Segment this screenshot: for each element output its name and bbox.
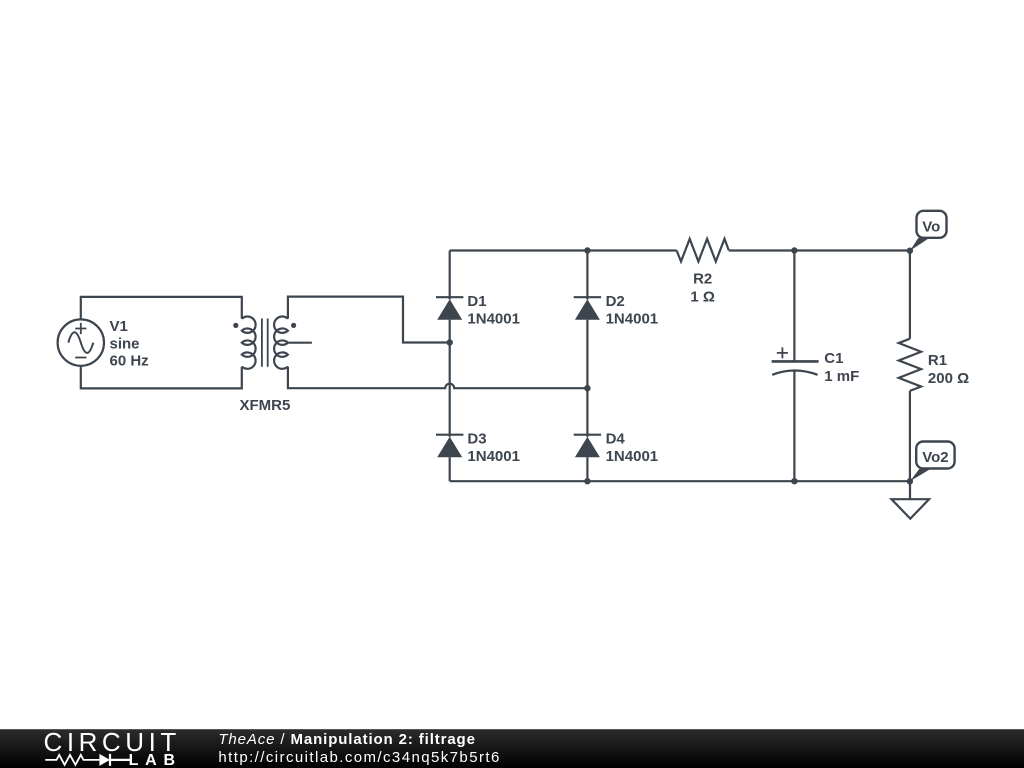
transformer primary dot — [233, 323, 238, 328]
flag Vo2 pointer — [910, 469, 931, 482]
svg-text:http://circuitlab.com/c34nq5k7: http://circuitlab.com/c34nq5k7b5rt6 — [218, 749, 500, 766]
junction dot top rail at C1 — [791, 247, 797, 253]
logo resistor glyph — [45, 755, 99, 765]
ground — [892, 499, 930, 519]
wire R1 top lead — [909, 251, 911, 339]
junction dot bottom rail at C1 — [791, 478, 797, 484]
node B junction dot — [584, 385, 590, 391]
wire bridge right vertical middle — [586, 320, 588, 437]
wire top rail left segment — [450, 249, 677, 251]
capacitor C1 — [772, 347, 819, 374]
junction dot top rail at bridge right — [584, 247, 590, 253]
transformer secondary dot — [291, 323, 296, 328]
wire secondary bottom to bridge node B with hop — [288, 367, 588, 389]
svg-text:XFMR5: XFMR5 — [239, 397, 290, 414]
svg-text:TheAce / Manipulation 2: filtr: TheAce / Manipulation 2: filtrage — [218, 731, 475, 748]
flag Vo pointer — [910, 238, 930, 251]
wire top rail right segment — [729, 249, 910, 251]
svg-text:D11N4001: D11N4001 — [467, 293, 520, 328]
wire bottom rail — [450, 480, 910, 482]
svg-text:Vo2: Vo2 — [922, 449, 948, 466]
wire bridge left vertical lower — [449, 457, 451, 481]
wire bridge right vertical upper — [586, 251, 588, 300]
wire ground lead — [909, 481, 911, 499]
resistor R2 — [677, 239, 729, 262]
wire C1 top lead — [793, 251, 795, 362]
logo diode glyph — [99, 754, 131, 766]
diode D2 — [574, 297, 601, 320]
wire secondary top to bridge node A — [288, 297, 448, 343]
voltage source V1 — [58, 319, 104, 365]
diode D4 — [574, 435, 601, 458]
wire V1 bottom to primary — [81, 366, 242, 389]
transformer XFMR5 primary winding — [242, 316, 256, 368]
svg-text:LAB: LAB — [129, 752, 182, 768]
svg-text:R21 Ω: R21 Ω — [690, 271, 715, 306]
flag Vo box — [917, 211, 947, 238]
junction dot bottom rail at bridge right — [584, 478, 590, 484]
wire R1 bottom lead — [909, 391, 911, 481]
wire C1 bottom lead — [793, 370, 795, 481]
svg-text:V1sine60 Hz: V1sine60 Hz — [110, 318, 149, 370]
wire bridge left vertical middle — [449, 320, 451, 437]
transformer XFMR5 core — [262, 319, 268, 367]
diode D3 — [436, 435, 463, 458]
diode D1 — [436, 297, 463, 320]
footer bar — [0, 729, 1024, 768]
svg-text:D41N4001: D41N4001 — [606, 430, 659, 465]
svg-text:D31N4001: D31N4001 — [467, 430, 520, 465]
flag Vo2 box — [916, 442, 954, 469]
transformer XFMR5 secondary winding — [274, 316, 288, 368]
svg-text:C11 mF: C11 mF — [824, 350, 859, 385]
node A junction dot — [447, 339, 453, 345]
resistor R1 — [899, 339, 921, 391]
node Vo junction dot — [907, 248, 913, 254]
wire bridge left vertical upper — [449, 251, 451, 300]
wire bridge right vertical lower — [586, 457, 588, 481]
transformer center tap stub — [288, 342, 312, 344]
wire V1 top to primary — [81, 297, 242, 320]
node Vo2 junction dot — [907, 478, 913, 484]
svg-text:Vo: Vo — [922, 218, 940, 235]
svg-text:D21N4001: D21N4001 — [606, 293, 659, 328]
svg-text:R1200 Ω: R1200 Ω — [928, 352, 969, 387]
